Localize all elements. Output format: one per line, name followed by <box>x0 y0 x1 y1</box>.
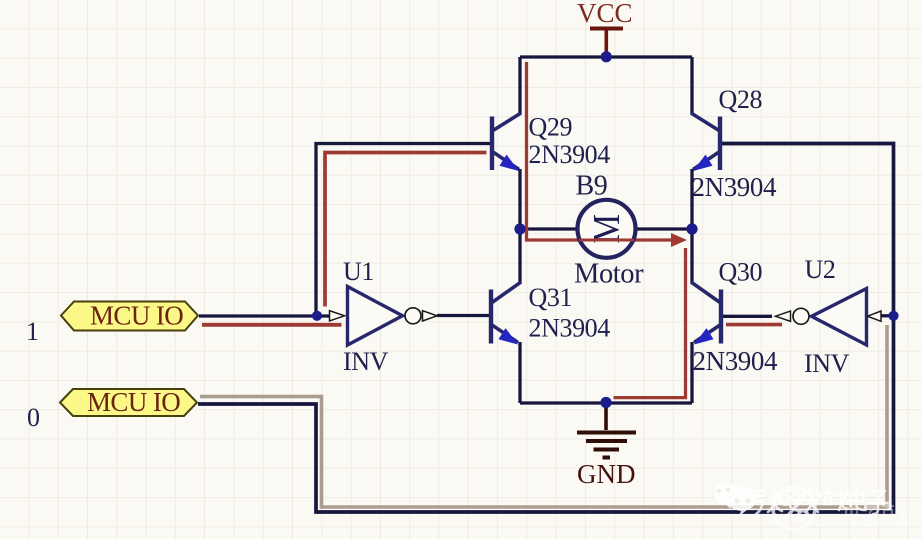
svg-text:U1: U1 <box>343 257 374 286</box>
svg-text:GND: GND <box>577 459 636 489</box>
svg-text:0: 0 <box>27 403 40 432</box>
svg-text:MCU IO: MCU IO <box>87 387 180 417</box>
svg-text:Q29: Q29 <box>529 113 573 142</box>
svg-text:2N3904: 2N3904 <box>529 314 611 343</box>
svg-text:www.elecfans.com: www.elecfans.com <box>817 518 907 530</box>
svg-text:2N3904: 2N3904 <box>693 346 778 376</box>
svg-text:2N3904: 2N3904 <box>529 140 611 169</box>
svg-text:Q28: Q28 <box>719 85 763 114</box>
svg-text:INV: INV <box>804 349 850 378</box>
svg-text:1: 1 <box>26 317 39 346</box>
svg-text:U2: U2 <box>805 255 836 284</box>
svg-text:MCU IO: MCU IO <box>90 301 183 331</box>
svg-text:VCC: VCC <box>577 0 633 28</box>
svg-text:INV: INV <box>343 347 389 376</box>
svg-text:Q30: Q30 <box>719 258 763 287</box>
svg-text:Q31: Q31 <box>529 283 573 312</box>
svg-text:B9: B9 <box>576 171 608 202</box>
svg-text:Motor: Motor <box>574 259 644 290</box>
svg-text:2N3904: 2N3904 <box>692 172 777 202</box>
